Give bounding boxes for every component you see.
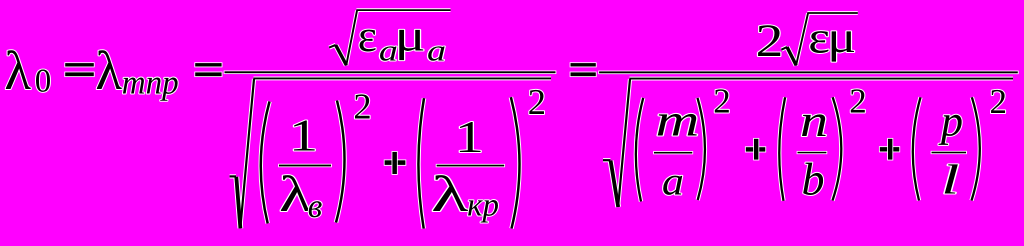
paren right 4 (833, 97, 842, 200)
paren left 5 (913, 97, 921, 200)
svg-text:m: m (656, 94, 700, 145)
svg-text:2: 2 (990, 82, 1008, 121)
plus sign 2 (746, 139, 766, 160)
paren left 1 (261, 102, 270, 224)
paren right 5 (972, 97, 980, 200)
numerator 1 small radical (329, 10, 450, 65)
svg-text:mnp: mnp (122, 65, 179, 102)
svg-text:2: 2 (849, 81, 867, 120)
svg-text:в: в (308, 188, 323, 225)
paren left 3 (636, 98, 643, 202)
svg-text:μ: μ (827, 12, 856, 62)
svg-text:a: a (427, 35, 446, 68)
paren left 4 (779, 97, 785, 201)
svg-text:μ: μ (395, 11, 426, 61)
equals sign 1 (65, 63, 94, 76)
equals sign 3 (571, 63, 596, 76)
big radical 1 (230, 78, 551, 228)
svg-text:1: 1 (289, 110, 318, 161)
numerator 2 small radical (781, 13, 857, 65)
svg-text:b: b (802, 154, 825, 205)
fraction 2 main bar (599, 71, 1018, 73)
svg-text:λ: λ (4, 40, 31, 101)
svg-text:2: 2 (713, 81, 731, 120)
plus sign 1 (385, 152, 406, 174)
svg-text:2: 2 (528, 81, 546, 122)
svg-text:λ: λ (95, 40, 122, 101)
svg-text:0: 0 (35, 64, 52, 100)
svg-text:l: l (941, 158, 959, 204)
svg-text:кр: кр (467, 188, 499, 224)
svg-text:a: a (662, 158, 684, 203)
svg-text:p: p (938, 97, 963, 146)
paren right 1 (336, 101, 345, 223)
paren right 2 (511, 97, 520, 228)
paren right 3 (698, 98, 705, 200)
svg-text:n: n (800, 95, 828, 146)
svg-text:1: 1 (455, 111, 484, 162)
fraction 1 main bar (225, 71, 556, 73)
paren left 2 (418, 98, 424, 228)
equals sign 2 (195, 63, 221, 76)
svg-text:ε: ε (358, 10, 377, 61)
plus sign 3 (880, 139, 900, 160)
big radical 2 (603, 79, 1013, 207)
svg-text:λ: λ (431, 167, 469, 223)
svg-text:2: 2 (756, 16, 784, 67)
svg-text:2: 2 (353, 85, 371, 126)
